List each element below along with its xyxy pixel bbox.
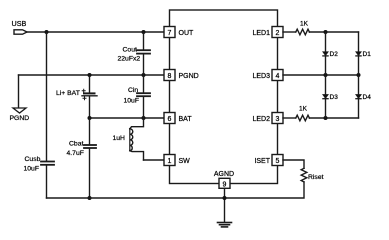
USB connector J1 [12,19,28,34]
pin 9 AGND [214,171,234,188]
resistor R1 1K [296,21,310,35]
capacitor Cbat 4.7uF [67,118,97,157]
svg-text:7: 7 [168,30,172,37]
node Cout/OUT junction [142,30,146,34]
wire BAT rail to pin6 [90,117,165,119]
svg-text:22uFx2: 22uFx2 [118,56,141,63]
svg-text:AGND: AGND [214,171,234,178]
node USB/Cusb junction [45,30,49,34]
svg-text:10uF: 10uF [24,166,40,173]
svg-text:6: 6 [168,116,172,123]
svg-text:3: 3 [276,116,280,123]
node D2/D3 junction [324,73,328,77]
wire Cusb bottom to ground rail [46,165,48,198]
pin 7 OUT [164,27,194,38]
svg-text:1uH: 1uH [113,135,126,142]
node AGND/ground rail junction [223,196,227,200]
svg-text:Cout: Cout [123,47,137,54]
pin 2 LED1 [252,27,283,38]
ground PGND symbol [10,108,30,122]
svg-text:2: 2 [276,30,280,37]
svg-text:9: 9 [223,181,227,188]
svg-text:8: 8 [168,73,172,80]
node Cin-/L1 junction [142,116,146,120]
svg-text:ISET: ISET [254,158,270,165]
wire R2 to D4 bottom [309,117,358,119]
svg-text:Cin: Cin [128,87,138,94]
pin 5 ISET [254,155,283,166]
node battery+/PGND junction [88,73,92,77]
svg-text:5: 5 [276,158,280,165]
wire pin4 LED3 row [283,74,359,76]
svg-text:10uF: 10uF [124,98,140,105]
resistor R2 1K [296,106,310,121]
svg-text:USB: USB [12,19,27,28]
pin 8 PGND [164,70,199,81]
svg-text:Cusb: Cusb [25,156,41,163]
wire pin2 to R1 [283,31,296,33]
resistor Riset [301,168,323,182]
svg-text:OUT: OUT [179,30,195,37]
pin 3 LED2 [252,113,283,124]
wire R1 to D1 top [309,31,358,33]
svg-text:LED1: LED1 [252,30,270,37]
diode D3 [323,75,338,118]
node R1/D2 junction [324,30,328,34]
svg-text:D4: D4 [363,94,372,101]
node D1/D4 junction [357,73,361,77]
svg-text:4: 4 [276,73,280,80]
svg-text:BAT: BAT [179,116,193,123]
svg-text:4.7uF: 4.7uF [67,150,84,157]
svg-text:D3: D3 [330,94,339,101]
svg-text:SW: SW [179,158,191,165]
wire L1 to pin1 SW [144,159,165,161]
wire USB to OUT pin7 [27,31,164,33]
wire PGND rail to pin8 [19,74,165,76]
svg-text:1: 1 [168,158,172,165]
op-amp U1 IC body [170,10,278,184]
inductor L1 1uH [113,118,144,160]
diode D1 [356,32,371,75]
capacitor Cout 22uFx2 [118,32,151,75]
wire pin3 to R2 [283,117,296,119]
wire Riset bottom to ground rail [47,182,305,198]
svg-text:LED3: LED3 [252,73,270,80]
svg-text:Riset: Riset [308,174,324,181]
diode D2 [323,32,338,75]
pin 1 SW [164,155,190,166]
svg-text:D2: D2 [330,51,339,58]
svg-text:Cbat: Cbat [69,141,83,148]
capacitor Cin 10uF [124,75,151,118]
wire PGND symbol drop [18,75,20,108]
svg-text:D1: D1 [363,51,372,58]
svg-text:1K: 1K [299,106,308,113]
wire Cbat bottom to ground rail [89,148,91,198]
capacitor Cusb 10uF [24,156,55,173]
svg-text:PGND: PGND [179,73,199,80]
wire pin9 to ground [224,188,226,222]
node Cbat/ground rail junction [88,196,92,200]
svg-text:1K: 1K [300,21,309,28]
svg-text:LED2: LED2 [252,116,270,123]
battery BT1 Li+ BAT [56,75,97,118]
node Cout-/Cin+ junction [142,73,146,77]
pin 6 BAT [164,113,192,124]
wire pin5 to Riset [283,160,304,168]
diode D4 [356,75,371,118]
pin 4 LED3 [252,70,283,81]
node battery-/Cbat junction [88,116,92,120]
svg-text:Li+ BAT: Li+ BAT [56,90,80,97]
svg-text:PGND: PGND [10,115,30,122]
ground AGND earth symbol [218,223,232,227]
wire left vertical x=46.5 (USB to Cusb) [46,32,48,161]
node R2/D3 junction [324,116,328,120]
